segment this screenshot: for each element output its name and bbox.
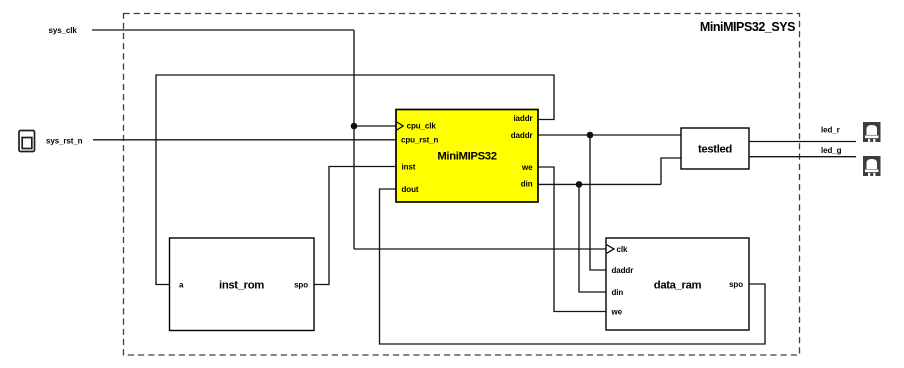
svg-text:MiniMIPS32_SYS: MiniMIPS32_SYS <box>700 20 795 34</box>
wire inst net: inst_rom spo to cpu inst <box>314 167 396 285</box>
svg-text:led_r: led_r <box>821 126 840 135</box>
svg-text:data_ram: data_ram <box>654 280 702 292</box>
junction clk at cpu_clk branch <box>351 123 358 130</box>
input button icon sys_rst_n <box>19 131 35 152</box>
block testled <box>681 128 749 169</box>
wire daddr branch to data_ram daddr <box>590 135 606 270</box>
svg-text:sys_clk: sys_clk <box>49 26 78 35</box>
svg-text:inst_rom: inst_rom <box>219 280 264 292</box>
wire daddr net horizontal to testled <box>538 134 681 136</box>
junction daddr branch <box>587 132 594 139</box>
wire led_r <box>749 141 856 143</box>
LED indicator icon led_g <box>863 156 881 176</box>
clock pin marker cpu_clk <box>397 122 404 130</box>
svg-text:MiniMIPS32: MiniMIPS32 <box>437 151 496 163</box>
wire iaddr net: cpu iaddr to inst_rom a <box>156 75 554 285</box>
wire din net horizontal <box>538 183 661 185</box>
clock pin marker clk (data_ram) <box>607 245 614 253</box>
block inst_rom <box>170 238 315 331</box>
svg-text:spo: spo <box>294 280 308 289</box>
block data_ram <box>606 238 749 330</box>
svg-text:we: we <box>521 163 533 172</box>
junction din branch <box>576 181 583 188</box>
svg-text:din: din <box>521 180 533 189</box>
svg-text:spo: spo <box>729 280 743 289</box>
wire sys_clk horizontal <box>92 29 354 31</box>
wire sys_rst_n to cpu_rst_n <box>93 139 396 141</box>
svg-text:led_g: led_g <box>821 146 842 155</box>
svg-text:we: we <box>611 307 623 316</box>
wire we net: cpu we to data_ram we <box>538 167 606 312</box>
wire clk to data_ram clk <box>354 248 606 250</box>
svg-text:a: a <box>179 280 184 289</box>
svg-text:inst: inst <box>402 162 416 171</box>
svg-text:cpu_rst_n: cpu_rst_n <box>401 136 439 145</box>
svg-text:din: din <box>612 288 624 297</box>
block MiniMIPS32 (CPU) <box>396 110 538 203</box>
LED indicator icon led_r <box>863 122 881 142</box>
svg-text:daddr: daddr <box>511 131 533 140</box>
wire dout net: cpu dout to data_ram spo via bottom <box>380 189 766 344</box>
wire cpu_clk stub <box>354 125 396 127</box>
svg-text:sys_rst_n: sys_rst_n <box>46 136 83 145</box>
wire din branch to testled input <box>661 158 681 184</box>
svg-text:daddr: daddr <box>612 266 634 275</box>
svg-text:iaddr: iaddr <box>513 114 532 123</box>
boundary MiniMIPS32_SYS dashed border <box>124 14 800 356</box>
wire led_g <box>749 156 856 158</box>
wire clk trunk vertical <box>353 30 355 249</box>
svg-text:testled: testled <box>698 144 732 156</box>
svg-text:cpu_clk: cpu_clk <box>407 122 437 131</box>
svg-text:clk: clk <box>617 245 628 254</box>
svg-text:dout: dout <box>402 185 419 194</box>
wire din branch to data_ram din <box>579 184 606 292</box>
